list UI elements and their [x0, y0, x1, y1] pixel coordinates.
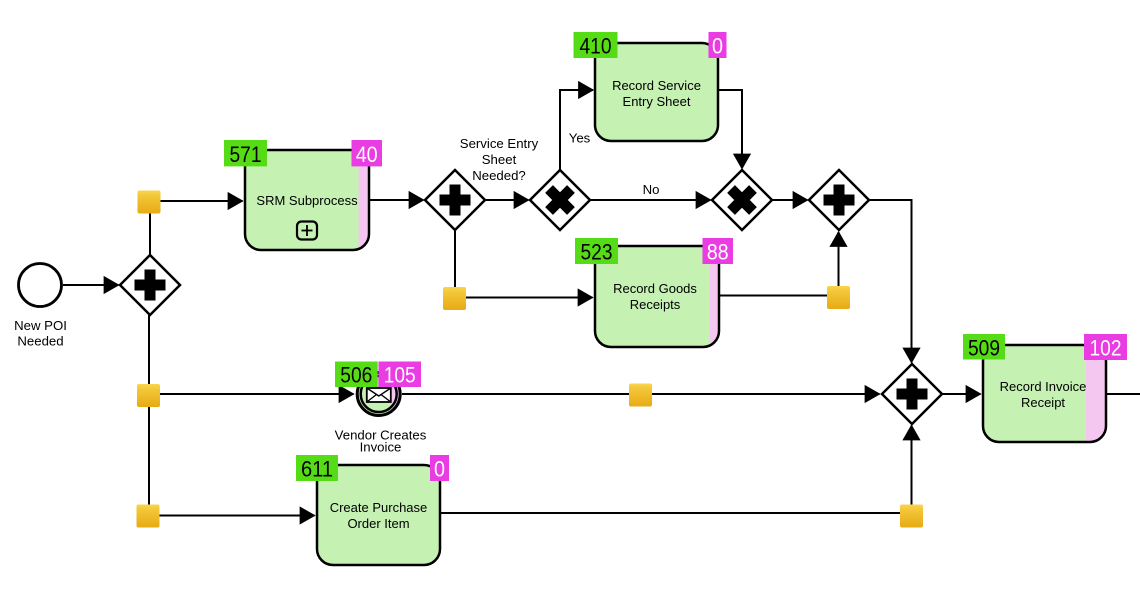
- task SRM Subprocess: [245, 150, 369, 250]
- svg-text:SRM Subprocess: SRM Subprocess: [256, 193, 358, 208]
- svg-text:Record Goods: Record Goods: [613, 281, 697, 296]
- wire S1 to SRM Subprocess task: [150, 200, 243, 202]
- junction square S5: [137, 505, 160, 528]
- wire G1 up to junction square S1: [149, 202, 151, 256]
- gateway G6 parallel join: [882, 364, 942, 424]
- svg-text:Entry Sheet: Entry Sheet: [623, 94, 691, 109]
- gateway G2 parallel: [425, 170, 485, 230]
- task Record Goods Receipts: [595, 246, 719, 347]
- wire message event to G6 through junction square S6: [402, 393, 880, 395]
- wire S4 to message event: [149, 393, 354, 395]
- subprocess plus marker: [297, 222, 317, 240]
- wire Create Purchase Order Item to junction square S7: [440, 512, 912, 514]
- message event Vendor Creates Invoice: [357, 372, 402, 416]
- gateway G3 exclusive: [530, 170, 590, 230]
- label 0: [709, 32, 727, 59]
- gateway G1 parallel: [120, 255, 180, 315]
- svg-text:New POI: New POI: [14, 318, 67, 333]
- svg-text:No: No: [643, 182, 660, 197]
- svg-text:Service Entry: Service Entry: [460, 136, 539, 151]
- wire Record Goods Receipts to junction square S3: [719, 295, 839, 297]
- task Record Invoice Receipt: [983, 345, 1106, 442]
- label Service Entry Sheet Needed?: [460, 136, 539, 183]
- junction square S1: [138, 191, 161, 214]
- task Record Service Entry Sheet: [595, 43, 718, 141]
- label 506: [335, 362, 378, 388]
- svg-text:Receipt: Receipt: [1021, 395, 1065, 410]
- wire G4 to gateway G5: [772, 199, 808, 201]
- svg-text:40: 40: [356, 142, 378, 167]
- svg-text:Yes: Yes: [569, 131, 591, 146]
- task Create Purchase Order Item: [317, 465, 440, 565]
- label 88: [703, 238, 734, 265]
- label 105: [379, 362, 422, 388]
- label 410: [574, 32, 618, 59]
- junction square S7: [900, 505, 923, 528]
- wire G5 right and down to gateway G6: [869, 200, 912, 363]
- svg-text:506: 506: [340, 363, 372, 388]
- wire S7 up to G6: [911, 426, 913, 514]
- wire SRM Subprocess to gateway G2: [369, 199, 424, 201]
- label 509: [963, 334, 1005, 361]
- gateway G4 exclusive merge: [712, 170, 772, 230]
- svg-text:88: 88: [707, 240, 729, 265]
- label 523: [575, 238, 618, 265]
- wire start event to gateway G1: [63, 284, 119, 286]
- start event circle: [19, 264, 62, 307]
- junction square S3: [827, 286, 850, 309]
- svg-text:509: 509: [968, 336, 1000, 361]
- envelope icon: [367, 388, 391, 402]
- wire G2 down to junction square S2: [454, 231, 456, 298]
- svg-text:Invoice: Invoice: [360, 440, 402, 455]
- wire G1 down through junction squares S4 and S5: [148, 315, 150, 516]
- junction square S4: [137, 384, 160, 407]
- wire Yes branch G3 up to Record Service Entry Sheet: [560, 90, 593, 170]
- label 611: [296, 455, 338, 482]
- wire G6 to Record Invoice Receipt: [942, 393, 981, 395]
- svg-text:Needed?: Needed?: [472, 168, 526, 183]
- junction square S6: [629, 384, 652, 407]
- svg-text:611: 611: [301, 457, 333, 482]
- wire S2 to Record Goods Receipts: [455, 297, 593, 299]
- svg-text:Needed: Needed: [17, 333, 63, 348]
- svg-text:Receipts: Receipts: [630, 297, 681, 312]
- wire Record Invoice Receipt to right edge: [1106, 393, 1140, 395]
- svg-text:523: 523: [581, 240, 613, 265]
- wire S5 to Create Purchase Order Item: [149, 515, 315, 517]
- gateway G5 parallel: [809, 170, 869, 230]
- label 0 second: [430, 455, 449, 482]
- svg-text:Order Item: Order Item: [347, 516, 409, 531]
- svg-text:0: 0: [434, 457, 445, 482]
- svg-text:105: 105: [384, 363, 416, 388]
- wire Record Service Entry Sheet down to gateway G4: [718, 90, 742, 169]
- svg-text:Record Invoice: Record Invoice: [1000, 379, 1087, 394]
- wire S3 up to G5: [838, 232, 840, 296]
- label 571: [224, 140, 267, 167]
- label 40: [352, 140, 383, 167]
- label 102: [1084, 334, 1127, 361]
- svg-text:0: 0: [712, 34, 723, 59]
- svg-text:102: 102: [1090, 336, 1122, 361]
- svg-text:Record Service: Record Service: [612, 78, 701, 93]
- svg-text:571: 571: [230, 142, 262, 167]
- wire G2 to gateway G3: [486, 199, 529, 201]
- svg-text:410: 410: [580, 34, 612, 59]
- svg-text:Create Purchase: Create Purchase: [330, 500, 428, 515]
- svg-text:Sheet: Sheet: [482, 152, 517, 167]
- junction square S2: [443, 287, 466, 310]
- wire No branch G3 to G4: [591, 199, 711, 201]
